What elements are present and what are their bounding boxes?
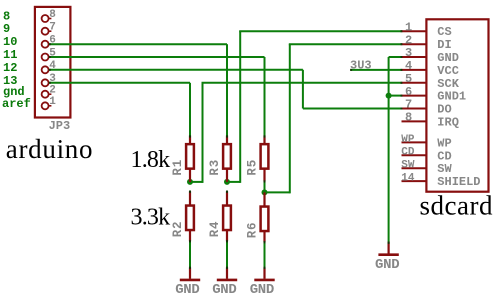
svg-text:R3: R3 <box>208 159 222 176</box>
svg-text:3U3: 3U3 <box>350 59 372 73</box>
resistor R6 <box>246 192 269 242</box>
wire arduino13 row <box>49 82 190 84</box>
sdcard pin 2 stub <box>402 43 427 45</box>
svg-text:R5: R5 <box>246 159 260 176</box>
sdcard pin 3 stub <box>402 56 427 58</box>
svg-text:7: 7 <box>405 98 412 112</box>
svg-text:R2: R2 <box>171 221 185 238</box>
wire SCK <box>202 82 402 84</box>
sdcard pin 5 stub <box>402 82 427 84</box>
svg-text:GND: GND <box>375 257 399 273</box>
JP3 pin circle 7 <box>42 28 49 35</box>
svg-text:CS: CS <box>437 25 451 39</box>
svg-text:aref: aref <box>2 97 31 111</box>
JP3 pin 1 stub <box>48 105 51 107</box>
svg-text:SW: SW <box>401 160 415 172</box>
wire VCC 3U3 <box>350 69 401 71</box>
connector JP3 <box>35 7 71 118</box>
svg-text:GND: GND <box>175 282 199 298</box>
ground under R4 <box>212 267 237 298</box>
wire DI vertical <box>289 44 291 193</box>
resistor R2 <box>171 191 194 241</box>
sdcard pin 8 stub <box>402 120 427 122</box>
svg-text:1: 1 <box>49 96 56 108</box>
svg-text:IRQ: IRQ <box>437 115 459 129</box>
wire arduino13 to R1 <box>189 83 191 137</box>
sdcard pin SW stub <box>402 167 427 169</box>
JP3 pin 2 stub <box>48 93 51 95</box>
svg-text:R4: R4 <box>208 221 222 238</box>
wire arduino11 row <box>49 56 264 58</box>
wire R1 junction up <box>202 83 204 183</box>
wire CS horizontal <box>239 30 401 32</box>
JP3 pin 8 stub <box>48 18 51 20</box>
svg-text:SW: SW <box>437 162 452 176</box>
wire arduino10 row <box>49 43 227 45</box>
svg-text:WP: WP <box>437 136 451 150</box>
resistor R3 <box>208 136 231 182</box>
wire DO vertical <box>302 70 304 109</box>
svg-text:SHIELD: SHIELD <box>437 175 480 189</box>
ground under R6 <box>250 267 275 298</box>
sdcard pin 6 stub <box>402 95 427 97</box>
svg-text:3: 3 <box>405 46 412 60</box>
wire arduino10 to R3 <box>226 44 228 137</box>
wire arduino12 row <box>49 69 303 71</box>
svg-text:VCC: VCC <box>437 64 459 78</box>
sdcard pin CD stub <box>402 154 427 156</box>
svg-text:DO: DO <box>437 103 451 117</box>
sdcard pin 7 stub <box>402 108 427 110</box>
JP3 pin circle 5 <box>42 54 49 61</box>
svg-text:1: 1 <box>405 20 412 34</box>
svg-text:14: 14 <box>401 173 415 185</box>
wire R3 junction right <box>227 181 240 183</box>
svg-text:CD: CD <box>401 147 415 159</box>
svg-text:6: 6 <box>405 85 412 99</box>
svg-text:WP: WP <box>401 134 415 146</box>
junction R5-R6 <box>262 189 268 195</box>
JP3 pin 7 stub <box>48 30 51 32</box>
svg-text:9: 9 <box>3 22 10 36</box>
resistor R5 <box>246 136 269 193</box>
svg-text:GND: GND <box>250 282 274 298</box>
wire DO horizontal <box>303 108 402 110</box>
wire arduino11 to R5 <box>264 57 266 137</box>
wire R6 to GND <box>264 242 266 268</box>
wire R5 junction right <box>265 191 290 193</box>
resistor R1 <box>171 136 194 182</box>
svg-text:GND: GND <box>437 51 459 65</box>
JP3 pin circle 3 <box>42 79 49 86</box>
sdcard pin 14 stub <box>402 180 427 182</box>
svg-text:4: 4 <box>405 59 412 73</box>
sdcard pin 1 stub <box>402 30 427 32</box>
resistor R4 <box>208 191 231 241</box>
wire R1 junction right <box>190 181 203 183</box>
svg-text:8: 8 <box>49 9 56 21</box>
svg-text:7: 7 <box>49 22 56 34</box>
wire CS vertical <box>239 31 241 183</box>
JP3 pin circle 2 <box>42 91 49 98</box>
svg-text:8: 8 <box>405 111 412 125</box>
sdcard pin WP stub <box>402 141 427 143</box>
sdcard pin 4 stub <box>402 69 427 71</box>
JP3 pin circle 1 <box>42 102 49 109</box>
junction GND1 <box>386 93 392 99</box>
wire R2 to GND <box>189 241 191 268</box>
wire DI horizontal <box>289 43 402 45</box>
junction R3-R4 <box>224 179 230 185</box>
JP3 pin circle 6 <box>42 41 49 48</box>
svg-text:12: 12 <box>3 61 17 75</box>
svg-text:1.8k: 1.8k <box>131 147 171 173</box>
svg-text:2: 2 <box>49 85 56 97</box>
svg-text:sdcard: sdcard <box>420 191 493 221</box>
pin contact ticks <box>49 31 403 269</box>
wire GND vertical <box>388 57 390 242</box>
wire GND pin3 <box>389 56 402 58</box>
svg-text:R1: R1 <box>171 159 185 176</box>
wire GND1 stub <box>389 95 402 97</box>
ground under R2 <box>175 267 200 298</box>
ground under sdcard <box>375 242 399 273</box>
svg-text:3.3k: 3.3k <box>131 205 171 231</box>
JP3 pin circle 8 <box>42 15 49 22</box>
wire R4 to GND <box>226 241 228 268</box>
svg-text:CD: CD <box>437 149 451 163</box>
JP3 pin circle 4 <box>42 66 49 73</box>
svg-text:GND: GND <box>212 282 236 298</box>
svg-text:arduino: arduino <box>6 134 93 164</box>
svg-text:R6: R6 <box>246 222 260 239</box>
junction R1-R2 <box>187 179 193 185</box>
sdcard U1 <box>426 19 488 191</box>
svg-text:JP3: JP3 <box>49 119 71 133</box>
svg-text:GND1: GND1 <box>437 90 466 104</box>
